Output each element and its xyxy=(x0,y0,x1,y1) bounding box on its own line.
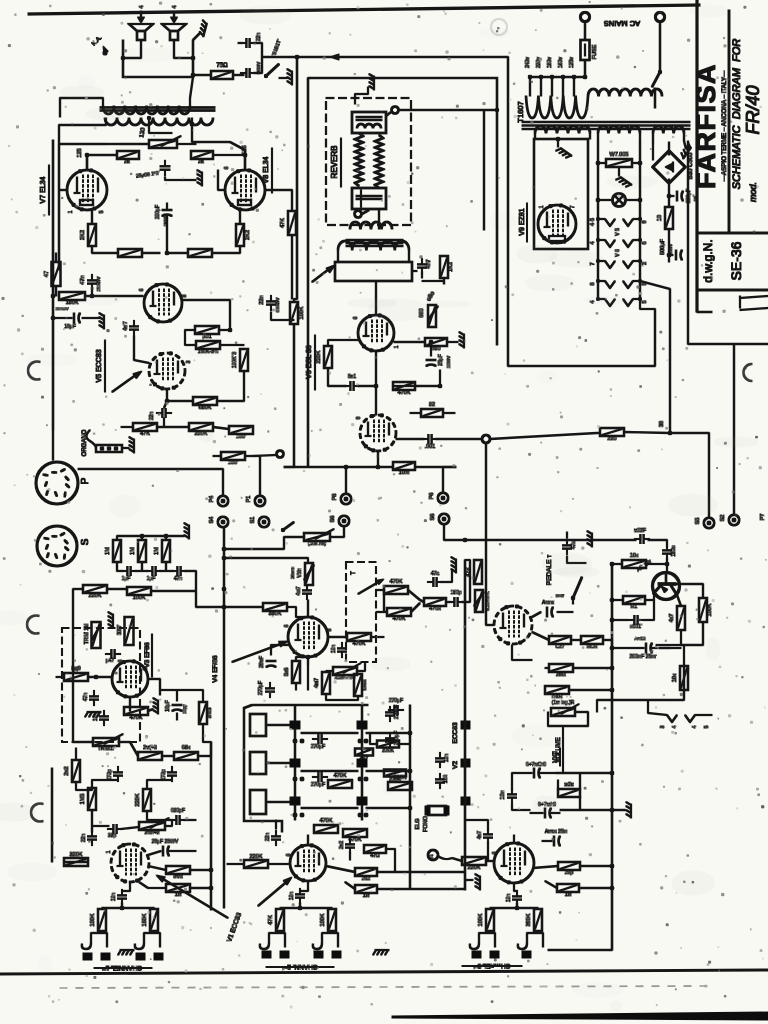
svg-text:1м: 1м xyxy=(565,892,572,898)
resistor 100K jack2 xyxy=(320,909,336,931)
wire q1 bot xyxy=(597,700,684,712)
svg-text:2кр: 2кр xyxy=(565,870,574,876)
svg-text:.001: .001 xyxy=(425,444,436,450)
svg-text:4к7: 4к7 xyxy=(669,614,675,623)
resistor 150K v5 xyxy=(185,330,244,355)
svg-text:1: 1 xyxy=(394,345,400,348)
resistor 220 right xyxy=(600,428,670,442)
wire 47K down xyxy=(291,235,293,299)
wire v6b down xyxy=(377,451,379,467)
svg-text:220K: 220K xyxy=(382,748,394,754)
wire caps join xyxy=(238,43,297,73)
svg-text:6+7мСг0: 6+7мСг0 xyxy=(526,762,546,768)
svg-text:1м: 1м xyxy=(175,892,182,898)
electrolytic 500uF b xyxy=(530,802,560,818)
hole punch top faint xyxy=(491,19,507,35)
capacitor 47n v3 cath xyxy=(83,690,99,705)
blackpad jack1b xyxy=(136,953,163,960)
terminal S6a xyxy=(330,516,349,527)
svg-text:Амгж: Амгж xyxy=(542,600,555,606)
svg-text:320K: 320K xyxy=(70,852,83,858)
svg-text:FONO: FONO xyxy=(423,815,429,832)
resistor 1K2 reverb xyxy=(440,256,454,278)
tube V9 EZ81 xyxy=(538,204,576,244)
wire in bus2 xyxy=(73,571,196,628)
label T1607 xyxy=(516,101,525,122)
wire input caps xyxy=(117,562,196,571)
resistor 1K q1 xyxy=(612,594,654,610)
terminal S6b xyxy=(430,514,449,525)
wire matrix rail left xyxy=(294,705,296,820)
wire ch1 top xyxy=(92,768,172,789)
svg-text:ʼ2: ʼ2 xyxy=(642,262,648,266)
wire S4 step a xyxy=(224,537,304,549)
resistor 220K v5 out xyxy=(189,423,213,437)
resistor 47K reverb xyxy=(280,211,296,235)
wire heater bus right xyxy=(688,141,768,344)
resistor 2K2 ch3 xyxy=(558,862,580,876)
resistor 82 v6b xyxy=(410,402,455,417)
wire jack1 leads xyxy=(102,931,154,933)
blackpad jack2b xyxy=(314,951,341,958)
wire psu down xyxy=(667,229,671,262)
wire V7 cathode xyxy=(87,210,92,224)
resistor 100K jack3 xyxy=(478,909,494,931)
wire ch2 wiring xyxy=(308,835,465,889)
tube V6b ECL86 xyxy=(360,414,396,452)
svg-text:(1м log.)R: (1м log.)R xyxy=(552,700,575,706)
svg-text:P6: P6 xyxy=(429,493,435,500)
resistor 47K mid xyxy=(466,560,482,584)
resistor 330K v3 xyxy=(117,617,134,645)
label pin7 V9 xyxy=(570,205,576,208)
node junction small xyxy=(253,451,284,458)
svg-text:10M: 10M xyxy=(399,470,410,476)
capacitor 25uF 25WV ch1 xyxy=(148,839,196,856)
electrolytic 500uF top xyxy=(518,762,556,778)
wire P to P4 xyxy=(78,456,260,495)
speaker LS1 xyxy=(129,5,153,40)
svg-text:9: 9 xyxy=(642,220,648,223)
ground bridge xyxy=(679,141,692,159)
label pin6 ch2 xyxy=(286,853,292,856)
ground mid xyxy=(441,557,456,582)
wire bridge bottom xyxy=(667,179,671,207)
label pin V8 6 xyxy=(224,166,230,169)
svg-text:8мк: 8мк xyxy=(173,874,183,880)
wire bottom border xyxy=(0,970,768,974)
svg-text:25WV: 25WV xyxy=(446,356,451,368)
resistor 22K psu low xyxy=(558,782,580,797)
wire reverb out right xyxy=(412,271,444,284)
svg-text:TRIM 1M: TRIM 1M xyxy=(84,624,90,645)
capacitor 10n v3 xyxy=(93,710,109,725)
wire right drop xyxy=(507,57,509,366)
terminal S4 xyxy=(209,517,228,528)
svg-text:125: 125 xyxy=(77,148,83,157)
svg-text:6: 6 xyxy=(492,851,498,854)
potentiometer TRIM 1M v3 xyxy=(84,622,101,648)
label V9 EZ81 xyxy=(519,203,527,242)
transformer OUT core xyxy=(100,108,215,111)
contact pad bus2 xyxy=(461,759,470,767)
svg-text:680: 680 xyxy=(431,346,440,352)
label pin V7 5 xyxy=(99,210,105,213)
svg-text:Амгж 25м: Амгж 25м xyxy=(545,829,568,835)
capacitor 1uF a xyxy=(121,567,136,583)
label 125 a xyxy=(77,148,83,157)
svg-text:TRIM1г: TRIM1г xyxy=(98,746,115,752)
svg-text:B30 C500: B30 C500 xyxy=(688,152,694,179)
svg-text:350WV: 350WV xyxy=(55,306,68,311)
resistor 100K v5 out xyxy=(229,426,253,440)
svg-text:10n: 10n xyxy=(444,754,450,763)
svg-text:240v: 240v xyxy=(525,57,531,68)
svg-text:V 6: V 6 xyxy=(615,249,621,257)
svg-text:FARFISA: FARFISA xyxy=(691,63,721,189)
contact pad left3 xyxy=(290,797,304,817)
wire v5b grid xyxy=(134,336,149,363)
label V3 EF86 xyxy=(144,634,152,677)
svg-text:22n: 22n xyxy=(81,834,87,843)
tube V7 EL34 xyxy=(67,169,107,211)
svg-text:330K: 330K xyxy=(269,611,282,617)
wire bottom faint line xyxy=(60,986,710,988)
wire term S5 drop xyxy=(670,433,709,517)
ground switch xyxy=(279,69,292,85)
svg-text:220K: 220K xyxy=(316,350,322,363)
wire v2 out xyxy=(512,612,573,660)
key switch box 3 xyxy=(250,790,290,814)
svg-text:16μF: 16μF xyxy=(165,700,171,712)
speaker LS2 xyxy=(162,5,186,40)
label CHANNEL 1st xyxy=(94,964,152,971)
wire selector feed xyxy=(530,76,585,78)
wire right vert 2 xyxy=(508,299,655,366)
resistor 150K jack1 xyxy=(142,909,158,931)
wire ch1 mid xyxy=(92,810,196,832)
svg-text:270μF: 270μF xyxy=(258,681,264,695)
svg-text:ECC83: ECC83 xyxy=(452,722,459,743)
svg-text:2k: 2k xyxy=(124,159,130,165)
wire switch to transformer xyxy=(654,88,656,108)
wire grid bus right xyxy=(213,150,247,170)
svg-text:470K: 470K xyxy=(393,616,406,622)
wire right vert 3 xyxy=(640,281,672,435)
wire ch1 down xyxy=(122,882,130,908)
electrolytic 25uF mid xyxy=(259,656,276,668)
label pin9 V6b xyxy=(356,416,362,419)
wire term S2 drop xyxy=(733,344,735,514)
key switch box 1 xyxy=(250,714,290,736)
ground organo xyxy=(122,437,134,453)
svg-text:10n: 10n xyxy=(331,645,337,654)
svg-text:S6: S6 xyxy=(330,516,336,523)
wire speaker mid xyxy=(121,40,195,60)
svg-text:л1млнтУб: л1млнтУб xyxy=(335,675,356,680)
heater V ch right xyxy=(648,713,712,728)
svg-text:47K: 47K xyxy=(268,915,274,925)
svg-text:220K: 220K xyxy=(250,854,263,860)
resistor 6M8 v3 grid xyxy=(64,666,88,681)
svg-text:P7: P7 xyxy=(760,514,766,521)
terminal AC mains 2 xyxy=(655,12,664,21)
switch mains xyxy=(652,70,662,87)
resistor 2K a xyxy=(117,151,139,165)
wire matrix right bus xyxy=(464,560,466,890)
ground speaker xyxy=(193,20,207,40)
potentiometer 2M2 ch1 xyxy=(139,818,169,836)
resistor 5K6 pedal b xyxy=(581,636,603,650)
label pin1 V6a xyxy=(394,345,400,348)
svg-text:REVERB: REVERB xyxy=(330,146,339,179)
svg-text:6: 6 xyxy=(284,624,290,627)
wire q1 col xyxy=(676,584,703,666)
capacitor 22n ch2 xyxy=(265,820,281,846)
wire heater box xyxy=(534,139,588,249)
terminal AC mains 1 xyxy=(580,12,589,21)
svg-text:6: 6 xyxy=(286,853,292,856)
wire ch3 wiring xyxy=(512,773,612,888)
wire mid out xyxy=(446,601,470,603)
svg-text:V8 EL34: V8 EL34 xyxy=(263,156,270,183)
wire sec left xyxy=(59,118,106,144)
hole punch right xyxy=(744,364,753,381)
capacitor 22n 50WV b xyxy=(240,62,261,78)
resistor 68K low xyxy=(174,745,198,760)
tube V1a ECC83 xyxy=(111,843,149,883)
resistor 390K jack3 xyxy=(526,909,542,931)
tube V2b ch3 xyxy=(494,842,534,884)
svg-text:6: 6 xyxy=(118,659,124,662)
svg-text:390K: 390K xyxy=(526,913,532,926)
resistor 1M ch1 xyxy=(166,884,190,898)
transformer T1607 core xyxy=(522,122,690,129)
svg-text:2K2: 2K2 xyxy=(80,230,86,240)
label pin8 V4 xyxy=(327,628,333,631)
title block left border xyxy=(696,0,698,312)
wire mid top xyxy=(330,527,344,537)
resistor 3M3 v3 xyxy=(199,702,213,724)
ground reverb top xyxy=(355,74,374,104)
svg-text:22n: 22n xyxy=(259,295,265,304)
terminal S5 xyxy=(695,518,714,529)
resistor 4M7 mid xyxy=(314,672,330,694)
wire cathode bus xyxy=(92,246,240,253)
svg-text:33р: 33р xyxy=(108,833,117,839)
svg-text:470к: 470к xyxy=(429,606,441,612)
svg-text:VУл: VУл xyxy=(297,568,303,577)
svg-text:7: 7 xyxy=(570,205,576,208)
resistor 10K q1 e xyxy=(672,666,688,690)
capacitor 270p top xyxy=(388,698,403,715)
label pin6 V6a xyxy=(353,316,359,319)
svg-text:10к: 10к xyxy=(672,673,678,682)
resistor 2M2 low xyxy=(138,744,162,760)
arrow signal top xyxy=(330,54,339,60)
svg-text:3: 3 xyxy=(186,360,192,363)
reverb dashed box xyxy=(326,98,411,225)
fuse F1 xyxy=(581,40,599,60)
wire term P8 xyxy=(345,467,347,493)
potentiometer VOL mid xyxy=(290,563,314,585)
svg-text:200μF: 200μF xyxy=(686,189,692,203)
wire v5a grid xyxy=(110,295,143,297)
ground ch2 xyxy=(465,874,480,890)
terminal reverb out xyxy=(355,210,370,218)
resistor 47 left top xyxy=(44,262,61,286)
svg-text:6: 6 xyxy=(139,288,145,291)
svg-text:S4: S4 xyxy=(209,517,215,524)
svg-text:25μF: 25μF xyxy=(438,354,444,366)
wire heater right wiring xyxy=(647,700,649,713)
terminal P1 xyxy=(246,496,265,507)
ground v6 cathode xyxy=(459,332,464,348)
svg-text:(10к лн): (10к лн) xyxy=(308,541,326,547)
svg-text:8: 8 xyxy=(182,294,188,297)
wire ch3 bus xyxy=(548,768,612,950)
label pin6 V4 xyxy=(284,624,290,627)
svg-text:270μF: 270μF xyxy=(389,698,403,704)
contact ELG FONO xyxy=(425,806,449,815)
resistor 470K mid b xyxy=(387,608,411,622)
wire sec mid tap xyxy=(147,116,172,133)
capacitor 180p mid xyxy=(448,590,463,607)
wire v3 grid xyxy=(56,675,112,679)
wire q1 em xyxy=(656,595,684,700)
capacitor 47n c xyxy=(171,567,186,583)
svg-text:4м7: 4м7 xyxy=(314,678,320,688)
label P xyxy=(80,477,91,484)
svg-text:180v: 180v xyxy=(547,57,553,68)
svg-text:25μF 25WV: 25μF 25WV xyxy=(152,839,179,845)
svg-text:470K: 470K xyxy=(390,579,403,585)
transformer T1607 sec 2 xyxy=(598,126,640,141)
svg-text:25дг: 25дг xyxy=(182,704,187,714)
svg-text:200μF: 200μF xyxy=(155,205,161,219)
resistor 1M5 ch1 xyxy=(80,788,96,810)
svg-text:mοd.: mοd. xyxy=(748,182,758,202)
potentiometer 680 fb xyxy=(419,305,438,327)
svg-text:100′: 100′ xyxy=(228,460,238,466)
svg-text:47Ω: 47Ω xyxy=(370,853,380,859)
wire v3 inner bus xyxy=(72,628,74,742)
capacitor 270p m3 xyxy=(258,681,275,698)
blackpad jack2a xyxy=(262,951,289,958)
svg-text:4·5: 4·5 xyxy=(590,218,596,226)
capacitor 10n ch3v xyxy=(500,788,517,803)
potentiometer 1M log R xyxy=(551,700,579,716)
capacitor 500uF 50WV psu2 xyxy=(669,250,682,260)
svg-text:SE-36: SE-36 xyxy=(728,241,744,280)
label ORGANO xyxy=(82,429,88,456)
resistor 2M2 ped xyxy=(549,664,573,678)
terminal S2 xyxy=(720,515,739,526)
ground v3 right xyxy=(148,698,158,714)
svg-text:4n′7: 4n′7 xyxy=(123,321,129,330)
svg-text:5: 5 xyxy=(704,725,710,728)
capacitor 4n7 mid xyxy=(296,584,312,599)
svg-text:2к2: 2к2 xyxy=(362,876,371,882)
label 38 node xyxy=(659,421,665,427)
svg-text:470K: 470K xyxy=(130,715,143,721)
svg-text:ELG: ELG xyxy=(415,818,421,829)
svg-text:μ47: μ47 xyxy=(106,658,115,664)
svg-text:1M5: 1M5 xyxy=(80,794,86,805)
spring reverb left xyxy=(355,133,363,186)
svg-text:500μF: 500μF xyxy=(660,239,666,255)
svg-text:470K: 470K xyxy=(353,641,366,647)
svg-text:P4: P4 xyxy=(209,496,215,503)
svg-text:100K: 100K xyxy=(320,913,326,926)
svg-text:d.w.g.N.: d.w.g.N. xyxy=(701,239,715,282)
arrow mid xyxy=(358,577,385,594)
svg-text:1K2: 1K2 xyxy=(448,262,454,272)
wire ch1 wiring xyxy=(52,768,211,888)
title block stub xyxy=(697,311,712,313)
resistor 10M v6b xyxy=(393,462,415,476)
svg-text:270μF: 270μF xyxy=(394,705,400,719)
wire left main bus xyxy=(51,140,55,430)
resistor 470K between xyxy=(355,749,373,763)
capacitor 180n v2 xyxy=(663,544,678,559)
capacitor 25uF 25WV ch3 xyxy=(542,829,568,846)
svg-text:180о: 180о xyxy=(671,545,677,556)
resistor 470K m1 xyxy=(328,773,352,788)
svg-text:47K: 47K xyxy=(280,218,286,228)
wire v5b plate xyxy=(165,371,244,403)
ground jack1 xyxy=(118,950,134,955)
tube V6a ECL86 xyxy=(358,314,394,352)
wire jack1 tops xyxy=(102,906,154,910)
resistor 2K2 pedal a xyxy=(549,636,571,650)
wire reverb transformer box xyxy=(335,262,412,281)
resistor 470K mid d xyxy=(347,633,371,647)
svg-text:47n: 47n xyxy=(83,693,89,702)
resistor 220K rung2 xyxy=(384,770,406,784)
svg-text:1M: 1M xyxy=(154,547,160,555)
title small box 1 xyxy=(740,296,768,310)
resistor 1M input b xyxy=(130,540,146,562)
svg-text:4: 4 xyxy=(172,5,178,8)
label V5 ECC83 xyxy=(96,340,105,392)
capacitor 1n v6b xyxy=(422,435,437,451)
svg-text:270μF: 270μF xyxy=(394,731,400,745)
wire fuse to selector xyxy=(583,60,587,79)
svg-text:47а: 47а xyxy=(431,571,440,577)
capacitor 22n v5b xyxy=(149,401,172,420)
svg-text:68к: 68к xyxy=(182,745,191,751)
resistor 10K q1 xyxy=(622,553,646,568)
terminal P8 xyxy=(332,494,351,505)
label V8 EL34 xyxy=(263,148,272,193)
svg-text:P: P xyxy=(80,477,91,484)
resistor 1M ch3 xyxy=(557,884,579,898)
wire V7 grid xyxy=(59,144,67,270)
label pin8 V3 xyxy=(143,667,149,670)
svg-text:250WV: 250WV xyxy=(96,277,101,292)
svg-text:4: 4 xyxy=(590,241,596,244)
terminal P6 xyxy=(429,493,448,504)
transistor Q1 AC151 xyxy=(653,573,680,600)
label AC MAINS xyxy=(604,19,640,28)
svg-text:V7 EL34: V7 EL34 xyxy=(40,176,47,203)
title FR/40 xyxy=(743,85,763,134)
capacitor 10n ch3 xyxy=(506,890,522,905)
wire v6 mid xyxy=(328,351,442,415)
wire matrix enclosure xyxy=(244,705,282,832)
svg-text:22n: 22n xyxy=(265,833,271,842)
